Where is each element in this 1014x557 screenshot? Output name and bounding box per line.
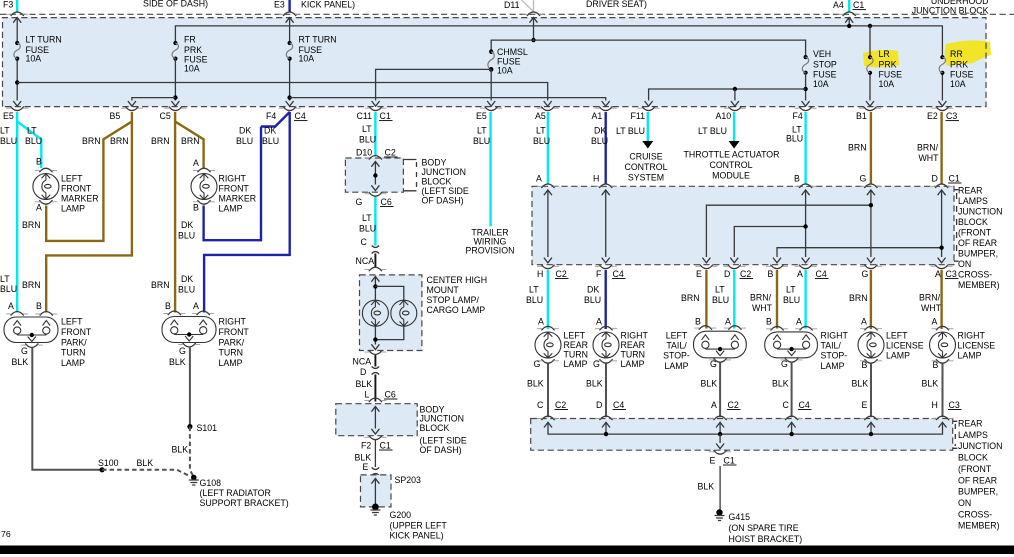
svg-text:BRN: BRN — [110, 136, 129, 146]
svg-text:RT TURN: RT TURN — [299, 35, 337, 45]
svg-text:D: D — [724, 269, 730, 279]
svg-text:WHT: WHT — [919, 153, 940, 163]
svg-text:BRN: BRN — [22, 220, 41, 230]
svg-text:A: A — [797, 269, 803, 279]
svg-text:MODULE: MODULE — [712, 171, 750, 181]
svg-text:BLU: BLU — [359, 135, 376, 145]
svg-text:BLOCK: BLOCK — [958, 217, 988, 227]
wire RR PRK column — [941, 73, 943, 101]
svg-text:LT: LT — [362, 213, 372, 223]
svg-text:B: B — [766, 317, 772, 327]
svg-text:BLU: BLU — [712, 295, 729, 305]
svg-text:FRONT: FRONT — [219, 327, 250, 337]
svg-text:BRN: BRN — [82, 136, 101, 146]
connectors into RLJB2 top — [537, 416, 559, 420]
wire main park bus y82.5 to A5 — [17, 83, 548, 101]
svg-text:DRIVER SEAT): DRIVER SEAT) — [586, 0, 647, 9]
svg-text:G: G — [781, 359, 788, 369]
svg-text:PRK: PRK — [950, 60, 968, 70]
svg-text:FUSE: FUSE — [950, 70, 974, 80]
label REAR LAMPS JUNCTION BLOCK (FRONT OF REAR BUMPER, ON CROSS-MEMBER) 1 — [958, 186, 1002, 291]
svg-text:H: H — [932, 400, 938, 410]
svg-text:KICK PANEL): KICK PANEL) — [390, 531, 444, 541]
svg-text:C1: C1 — [853, 0, 864, 10]
svg-text:HOIST BRACKET): HOIST BRACKET) — [729, 534, 803, 544]
svg-text:10A: 10A — [950, 79, 966, 89]
wire right G BLK down to S101 — [189, 347, 191, 427]
fuse RR PRK 10A — [939, 55, 945, 75]
svg-text:JUNCTION: JUNCTION — [958, 441, 1002, 451]
svg-text:C1: C1 — [380, 111, 391, 121]
node LR PRK tap — [868, 24, 872, 28]
wire FR PRK top line y25.9 to RR PRK — [175, 26, 942, 57]
svg-text:H: H — [593, 174, 599, 184]
wire A1 DK BLU down to RLJB1 — [605, 112, 607, 185]
svg-text:L: L — [365, 390, 370, 400]
svg-text:TURN: TURN — [621, 350, 645, 360]
svg-text:BLU: BLU — [473, 136, 490, 146]
svg-text:G: G — [179, 346, 186, 356]
svg-text:LAMP: LAMP — [665, 361, 689, 371]
CHMSL lamp box — [360, 275, 422, 351]
svg-text:C2: C2 — [385, 148, 396, 158]
svg-text:G: G — [862, 269, 869, 279]
fuse FR PRK 10A — [172, 41, 178, 61]
wire E BRN to left tail/stop B — [705, 270, 707, 329]
svg-text:CARGO LAMP: CARGO LAMP — [427, 305, 486, 315]
svg-text:C3: C3 — [946, 269, 957, 279]
svg-text:VEH: VEH — [813, 49, 831, 59]
svg-text:C: C — [783, 400, 790, 410]
wire E5 branch to marker B — [17, 122, 41, 169]
svg-text:10A: 10A — [497, 66, 513, 76]
svg-text:FRONT: FRONT — [61, 184, 92, 194]
svg-text:A10: A10 — [716, 111, 732, 121]
svg-text:LT: LT — [477, 126, 487, 136]
wire inside BJB1 — [371, 162, 379, 167]
svg-text:(FRONT: (FRONT — [958, 464, 992, 474]
svg-text:PARK/: PARK/ — [61, 338, 87, 348]
wire tap F4r to D exit — [734, 227, 805, 258]
svg-text:10A: 10A — [879, 79, 895, 89]
lamp left front marker — [33, 174, 59, 200]
svg-text:B: B — [36, 301, 42, 311]
bulb CHMSL left — [362, 300, 388, 326]
svg-text:C4: C4 — [816, 269, 827, 279]
svg-text:BLK: BLK — [12, 357, 29, 367]
wire D C2 LT BLU to left tail/stop A — [733, 270, 735, 329]
wire inside CHMSL top — [371, 277, 379, 282]
svg-text:CENTER HIGH: CENTER HIGH — [427, 275, 488, 285]
svg-text:BLK: BLK — [169, 357, 186, 367]
svg-text:B: B — [768, 269, 774, 279]
svg-text:OF DASH): OF DASH) — [422, 196, 464, 206]
svg-text:E: E — [363, 462, 369, 472]
svg-text:F3: F3 — [3, 0, 13, 10]
wire BLK to G415 — [719, 466, 721, 511]
svg-text:E5: E5 — [3, 111, 14, 121]
svg-text:S100: S100 — [98, 458, 119, 468]
svg-text:LT: LT — [0, 274, 10, 284]
connector row bottom of UJB — [6, 107, 953, 111]
svg-text:D11: D11 — [504, 0, 520, 10]
wire inside BJB2 — [371, 407, 379, 412]
svg-text:OF DASH): OF DASH) — [420, 445, 462, 455]
svg-text:JUNCTION: JUNCTION — [958, 207, 1002, 217]
svg-text:FUSE: FUSE — [879, 70, 903, 80]
svg-text:C2: C2 — [728, 400, 739, 410]
svg-text:LAMP: LAMP — [821, 361, 845, 371]
svg-text:G: G — [593, 359, 600, 369]
svg-text:A: A — [596, 317, 602, 327]
svg-text:BLU: BLU — [533, 136, 550, 146]
lamp right rear turn — [593, 332, 619, 358]
connectors into RLJB1 top — [537, 184, 559, 188]
wire A5 LT BLU down to RLJB1 — [547, 112, 549, 185]
svg-text:BRN: BRN — [848, 143, 867, 153]
svg-text:RIGHT: RIGHT — [958, 331, 986, 341]
svg-text:C5: C5 — [160, 111, 171, 121]
svg-text:C1: C1 — [949, 174, 960, 184]
svg-text:G: G — [710, 359, 717, 369]
svg-text:BLK: BLK — [172, 445, 189, 455]
svg-text:RIGHT: RIGHT — [621, 331, 649, 341]
wire VEH STOP down to F4r — [805, 73, 807, 101]
wire pass-through A1 to F C4 — [602, 190, 610, 195]
svg-text:LAMPS: LAMPS — [958, 196, 988, 206]
wire LT BLU C6 down to C — [374, 197, 376, 246]
svg-text:BLK: BLK — [772, 379, 789, 389]
svg-text:TAIL/: TAIL/ — [666, 341, 687, 351]
svg-text:H: H — [537, 269, 543, 279]
inline connector C — [372, 246, 380, 254]
svg-text:D: D — [360, 367, 366, 377]
svg-text:A: A — [193, 158, 199, 168]
svg-text:PRK: PRK — [879, 60, 897, 70]
wire BLK left license — [870, 364, 872, 418]
wire RT TURN column E3 to F4 — [289, 18, 291, 101]
connector out of RLJB2 — [709, 450, 731, 454]
svg-text:LAMP: LAMP — [61, 204, 85, 214]
svg-text:DK: DK — [264, 126, 276, 136]
wire A C3 BRN/WHT to right license A — [940, 270, 942, 329]
svg-text:JUNCTION: JUNCTION — [422, 167, 466, 177]
svg-text:PROVISION: PROVISION — [466, 246, 515, 256]
svg-text:FRONT: FRONT — [219, 184, 250, 194]
svg-text:DK: DK — [587, 285, 599, 295]
svg-text:B: B — [933, 360, 939, 370]
wire branch to A1 — [290, 98, 606, 101]
connector F3 entry — [6, 12, 28, 16]
svg-text:A: A — [932, 317, 938, 327]
svg-text:OF REAR: OF REAR — [958, 238, 997, 248]
wire pass-through A5 to H C2 — [544, 190, 552, 195]
svg-text:WHT: WHT — [921, 303, 942, 313]
svg-text:A: A — [538, 317, 544, 327]
svg-text:10A: 10A — [813, 79, 829, 89]
svg-text:E3: E3 — [274, 0, 285, 10]
svg-text:F11: F11 — [631, 111, 646, 121]
svg-text:C4: C4 — [295, 111, 306, 121]
svg-text:CONTROL: CONTROL — [624, 162, 667, 172]
wire G BRN to left license A — [870, 270, 872, 329]
node A4 junction — [847, 24, 851, 28]
wire E5 trailer LT BLU — [489, 112, 491, 226]
svg-text:A: A — [36, 203, 42, 213]
rear lamps junction block 1 box — [532, 186, 954, 264]
svg-text:BLK: BLK — [527, 379, 544, 389]
svg-text:10A: 10A — [299, 54, 315, 64]
lamp right license — [930, 332, 956, 358]
wire C11 LT BLU down to BJB1 — [374, 112, 376, 157]
svg-text:REAR: REAR — [621, 340, 645, 350]
wire B BRN/WHT to right tail/stop B — [776, 270, 778, 329]
svg-text:(LEFT RADIATOR: (LEFT RADIATOR — [200, 488, 271, 498]
svg-text:BLK: BLK — [137, 458, 154, 468]
svg-text:LT: LT — [27, 126, 37, 136]
inline connector D — [372, 367, 380, 375]
wire E2 through with tap — [938, 190, 946, 195]
svg-text:CHMSL: CHMSL — [497, 47, 528, 57]
svg-text:F: F — [596, 269, 602, 279]
wire F11 LT BLU to cruise — [647, 112, 649, 141]
wire C5 branch diagonal to right marker A — [175, 122, 204, 169]
arrow throttle actuator — [729, 141, 740, 149]
rear lamps junction block 2 box — [531, 419, 953, 451]
connector out of BJB2 — [364, 436, 386, 440]
wire FR PRK down to C5 — [174, 59, 176, 101]
node VEH STOP branch — [803, 87, 807, 91]
svg-text:TURN: TURN — [219, 348, 243, 358]
svg-text:G: G — [860, 174, 867, 184]
svg-text:D: D — [932, 174, 938, 184]
svg-text:LT: LT — [536, 126, 546, 136]
wire right marker B DK BLU down right up — [204, 127, 261, 241]
svg-text:A: A — [796, 317, 802, 327]
label REAR LAMPS JUNCTION BLOCK (FRONT OF REAR BUMPER, ON CROSS-MEMBER) 2 — [958, 419, 1002, 531]
connector out of BJB1 — [364, 192, 386, 196]
svg-text:MOUNT: MOUNT — [427, 285, 460, 295]
svg-text:BLK: BLK — [356, 379, 373, 389]
wire left G BLK down and right to S100 — [32, 348, 102, 470]
svg-text:C2: C2 — [740, 269, 751, 279]
wire A C4 LT BLU to right tail/stop A — [804, 270, 806, 329]
wire dashed BLK S100 to G108 — [102, 470, 190, 477]
wire D11 stub (gray diagonal) — [522, 0, 534, 12]
svg-text:BUMPER,: BUMPER, — [958, 249, 998, 259]
svg-text:A5: A5 — [535, 111, 546, 121]
bulb CHMSL right — [391, 300, 417, 326]
node S101 — [187, 424, 192, 429]
svg-text:BLU: BLU — [783, 295, 800, 305]
svg-text:RR: RR — [950, 49, 963, 59]
svg-text:BRN: BRN — [849, 293, 868, 303]
svg-text:G: G — [534, 359, 541, 369]
svg-text:LT: LT — [529, 285, 539, 295]
connector E3 entry — [279, 12, 301, 16]
svg-text:LR: LR — [879, 49, 890, 59]
wire BLK right license — [942, 364, 944, 418]
svg-text:LEFT: LEFT — [886, 331, 908, 341]
svg-text:BLU: BLU — [359, 224, 376, 234]
svg-text:E2: E2 — [927, 111, 938, 121]
svg-text:BLOCK: BLOCK — [420, 423, 450, 433]
svg-text:C2: C2 — [555, 400, 566, 410]
svg-text:CONTROL: CONTROL — [709, 160, 752, 170]
svg-text:TURN: TURN — [564, 350, 588, 360]
cut-off box bottom edge (top of page) — [0, 13, 1014, 15]
wire BLK left rear turn — [547, 364, 549, 418]
svg-text:LAMP: LAMP — [886, 351, 910, 361]
svg-text:TAIL/: TAIL/ — [821, 341, 842, 351]
svg-text:STOP: STOP — [813, 60, 837, 70]
wire F4r LT BLU down to RLJB1 — [804, 112, 806, 185]
svg-text:BUMPER,: BUMPER, — [958, 487, 998, 497]
svg-text:G: G — [356, 197, 363, 207]
svg-text:B5: B5 — [110, 111, 121, 121]
wire tap E2 to B exit — [777, 248, 942, 257]
svg-text:OF REAR: OF REAR — [958, 475, 997, 485]
svg-text:C6: C6 — [385, 390, 396, 400]
wire ground bus exit to E C1 — [719, 434, 721, 443]
svg-text:F4: F4 — [266, 111, 276, 121]
svg-text:ON: ON — [958, 498, 971, 508]
svg-text:B: B — [695, 317, 701, 327]
svg-text:A: A — [935, 269, 941, 279]
svg-text:REAR: REAR — [958, 186, 982, 196]
wire E2 BRN/WHT down to RLJB1 — [940, 112, 942, 185]
svg-text:PARK/: PARK/ — [219, 338, 245, 348]
svg-text:BRN: BRN — [22, 280, 41, 290]
node RT TURN branch — [287, 95, 291, 99]
svg-text:BLU: BLU — [262, 136, 279, 146]
svg-text:A4: A4 — [833, 0, 844, 10]
svg-text:C4: C4 — [613, 269, 624, 279]
svg-text:B: B — [36, 157, 42, 167]
svg-text:BRN/: BRN/ — [917, 143, 939, 153]
svg-text:WHT: WHT — [752, 303, 773, 313]
svg-text:RIGHT: RIGHT — [821, 331, 849, 341]
svg-text:BLK: BLK — [698, 482, 715, 492]
svg-text:LT BLU: LT BLU — [616, 126, 645, 136]
node FR PRK branch — [173, 95, 177, 99]
svg-text:BLU: BLU — [591, 136, 608, 146]
wire LR PRK column — [869, 26, 871, 101]
svg-text:BLK: BLK — [701, 379, 718, 389]
wire D11 column down to node — [533, 18, 535, 41]
wire F4r through with tap — [802, 190, 810, 195]
svg-text:BLU: BLU — [178, 285, 195, 295]
SP203 box — [361, 475, 392, 507]
svg-text:G: G — [21, 346, 28, 356]
svg-text:DK: DK — [594, 126, 606, 136]
svg-text:MARKER: MARKER — [219, 194, 257, 204]
wire A10 drop — [734, 89, 736, 101]
svg-text:NCA: NCA — [353, 357, 372, 367]
svg-text:RIGHT: RIGHT — [219, 174, 247, 184]
svg-text:LAMPS: LAMPS — [958, 430, 988, 440]
wire E3 stub (DK BLU) — [288, 0, 290, 13]
svg-text:JUNCTION BLOCK: JUNCTION BLOCK — [912, 6, 989, 16]
svg-text:LEFT: LEFT — [61, 174, 83, 184]
highlight LR PRK — [863, 50, 899, 67]
underhood junction block box fill — [3, 18, 987, 107]
wire tap B1 to E exit — [706, 205, 871, 257]
svg-text:C2: C2 — [556, 269, 567, 279]
svg-text:G415: G415 — [729, 512, 751, 522]
svg-text:BLK: BLK — [922, 379, 939, 389]
svg-text:MARKER: MARKER — [61, 194, 99, 204]
svg-text:S101: S101 — [197, 423, 218, 433]
wire B1 BRN down to RLJB1 — [870, 112, 872, 185]
wire F4 branch diagonal joins — [261, 112, 290, 127]
svg-text:BODY: BODY — [422, 158, 447, 168]
node A10 branch — [733, 87, 737, 91]
wire branch y89 to F11 and A10 — [649, 89, 806, 101]
svg-text:LAMP: LAMP — [958, 351, 982, 361]
underhood junction block dashed border — [3, 18, 987, 107]
fuse LT TURN 10A — [14, 41, 20, 61]
svg-text:G200: G200 — [390, 510, 412, 520]
svg-text:BLOCK: BLOCK — [958, 453, 988, 463]
svg-text:BLU: BLU — [236, 136, 253, 146]
svg-text:LT: LT — [786, 285, 796, 295]
wire A4 stub (LT BLU) — [848, 0, 850, 13]
wire C5 BRN straight down to right park/turn B — [174, 112, 176, 313]
node D11 junction — [531, 38, 535, 42]
svg-text:10A: 10A — [184, 64, 200, 74]
svg-text:STOP-: STOP- — [663, 351, 690, 361]
svg-text:(LEFT SIDE: (LEFT SIDE — [422, 186, 469, 196]
arrow cruise control — [642, 141, 653, 149]
svg-text:LICENSE: LICENSE — [958, 341, 996, 351]
bracket RLJB2 label — [953, 421, 958, 448]
svg-text:CRUISE: CRUISE — [629, 152, 662, 162]
svg-text:DK: DK — [181, 220, 193, 230]
svg-text:CROSS-: CROSS- — [958, 270, 992, 280]
svg-text:KICK PANEL): KICK PANEL) — [301, 0, 355, 10]
svg-text:C6: C6 — [381, 197, 392, 207]
wire dashed BLK S101 to G108 — [190, 427, 194, 477]
connector into BJB1 — [364, 156, 386, 160]
fuse LR PRK 10A — [867, 55, 873, 75]
connectors out of RLJB1 bottom — [537, 265, 559, 269]
svg-text:A: A — [193, 301, 199, 311]
wire B5 BRN straight down — [46, 112, 132, 313]
svg-text:NCA: NCA — [356, 256, 375, 266]
wire LT TURN fuse column F3 to E5 — [16, 18, 18, 101]
node junctions on ground bus — [604, 432, 608, 436]
svg-text:SYSTEM: SYSTEM — [628, 173, 664, 183]
svg-text:BLU: BLU — [0, 136, 17, 146]
svg-text:E: E — [710, 456, 716, 466]
svg-text:SIDE OF DASH): SIDE OF DASH) — [143, 0, 208, 9]
svg-text:C3: C3 — [949, 400, 960, 410]
svg-text:A: A — [861, 317, 867, 327]
svg-text:LEFT: LEFT — [666, 331, 688, 341]
svg-text:(ON SPARE TIRE: (ON SPARE TIRE — [729, 523, 799, 533]
svg-text:C1: C1 — [380, 441, 391, 451]
svg-text:SUPPORT BRACKET): SUPPORT BRACKET) — [200, 498, 289, 508]
wire NCA black to CHMSL box — [374, 254, 376, 268]
connector into BJB2 — [364, 398, 386, 402]
bracket BJB1 label — [403, 160, 416, 191]
svg-text:FR: FR — [184, 35, 196, 45]
svg-text:LAMP: LAMP — [61, 358, 85, 368]
node bus junction at LT TURN — [15, 80, 19, 84]
svg-text:LT: LT — [362, 124, 372, 134]
svg-text:BLK: BLK — [586, 379, 603, 389]
